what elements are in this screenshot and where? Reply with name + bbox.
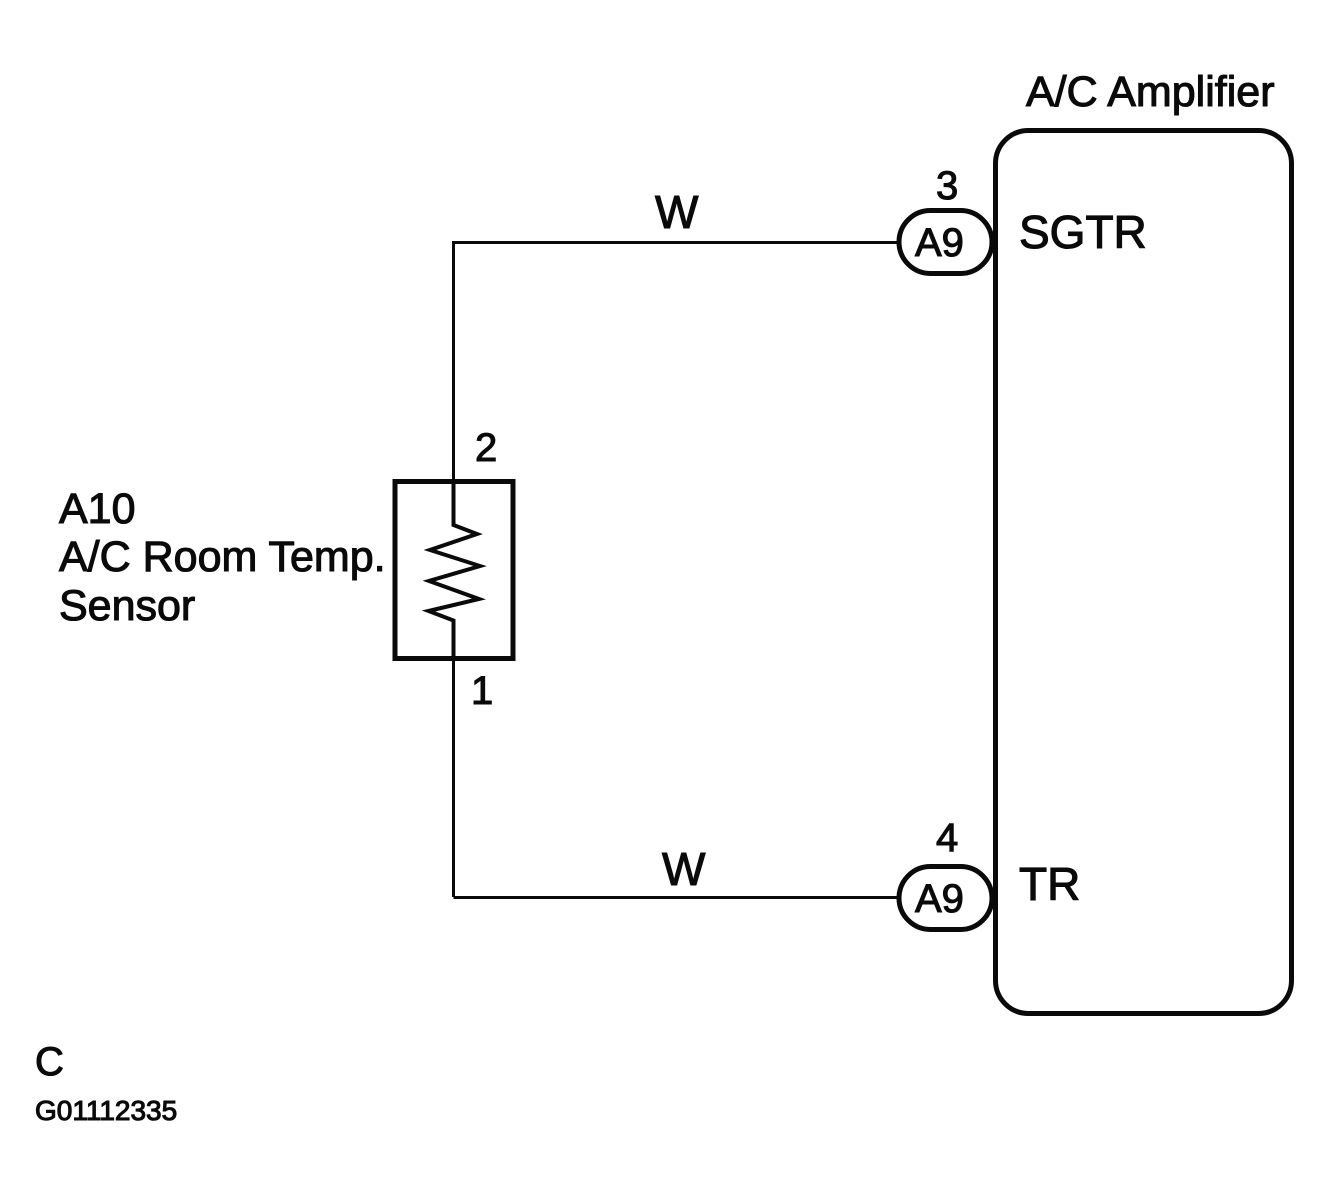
svg-text:1: 1: [471, 669, 493, 713]
figure id G01112335: [35, 1095, 177, 1126]
wire W top (sensor pin 2 to A9 pin 3): [454, 243, 899, 898]
figure label C: [35, 1040, 64, 1084]
pin 1 label: [471, 669, 493, 713]
connector A9 pin 4 oval: [899, 867, 992, 930]
pin 2 label: [475, 426, 497, 470]
svg-text:Sensor: Sensor: [59, 582, 195, 630]
pin 3 number: [936, 164, 958, 208]
wire label W top: [655, 186, 699, 238]
svg-text:TR: TR: [1019, 858, 1080, 910]
svg-text:W: W: [662, 843, 706, 895]
svg-text:SGTR: SGTR: [1019, 206, 1147, 258]
SGTR terminal label: [1019, 206, 1147, 258]
A10 sensor text label: [59, 485, 386, 630]
resistor thermistor element: [429, 482, 481, 659]
svg-text:A10: A10: [59, 485, 136, 533]
pin 4 number: [936, 816, 958, 860]
svg-text:A9: A9: [915, 877, 964, 921]
svg-text:C: C: [35, 1040, 64, 1084]
svg-text:A/C Room Temp.: A/C Room Temp.: [59, 533, 386, 581]
svg-text:W: W: [655, 186, 699, 238]
connector A9 pin 3 oval: [899, 211, 992, 274]
svg-text:4: 4: [936, 816, 958, 860]
wire label W bottom: [662, 843, 706, 895]
svg-text:G01112335: G01112335: [35, 1095, 177, 1126]
svg-text:A/C Amplifier: A/C Amplifier: [1026, 68, 1275, 116]
wire W bottom (sensor pin 1 to A9 pin 4): [454, 896, 899, 899]
TR terminal label: [1019, 858, 1080, 910]
svg-text:2: 2: [475, 426, 497, 470]
svg-text:A9: A9: [915, 221, 964, 265]
A/C Amplifier box U1: [996, 131, 1292, 1014]
resistor A10 sensor box: [395, 482, 513, 659]
svg-text:3: 3: [936, 164, 958, 208]
A/C Amplifier label: [1026, 68, 1275, 116]
